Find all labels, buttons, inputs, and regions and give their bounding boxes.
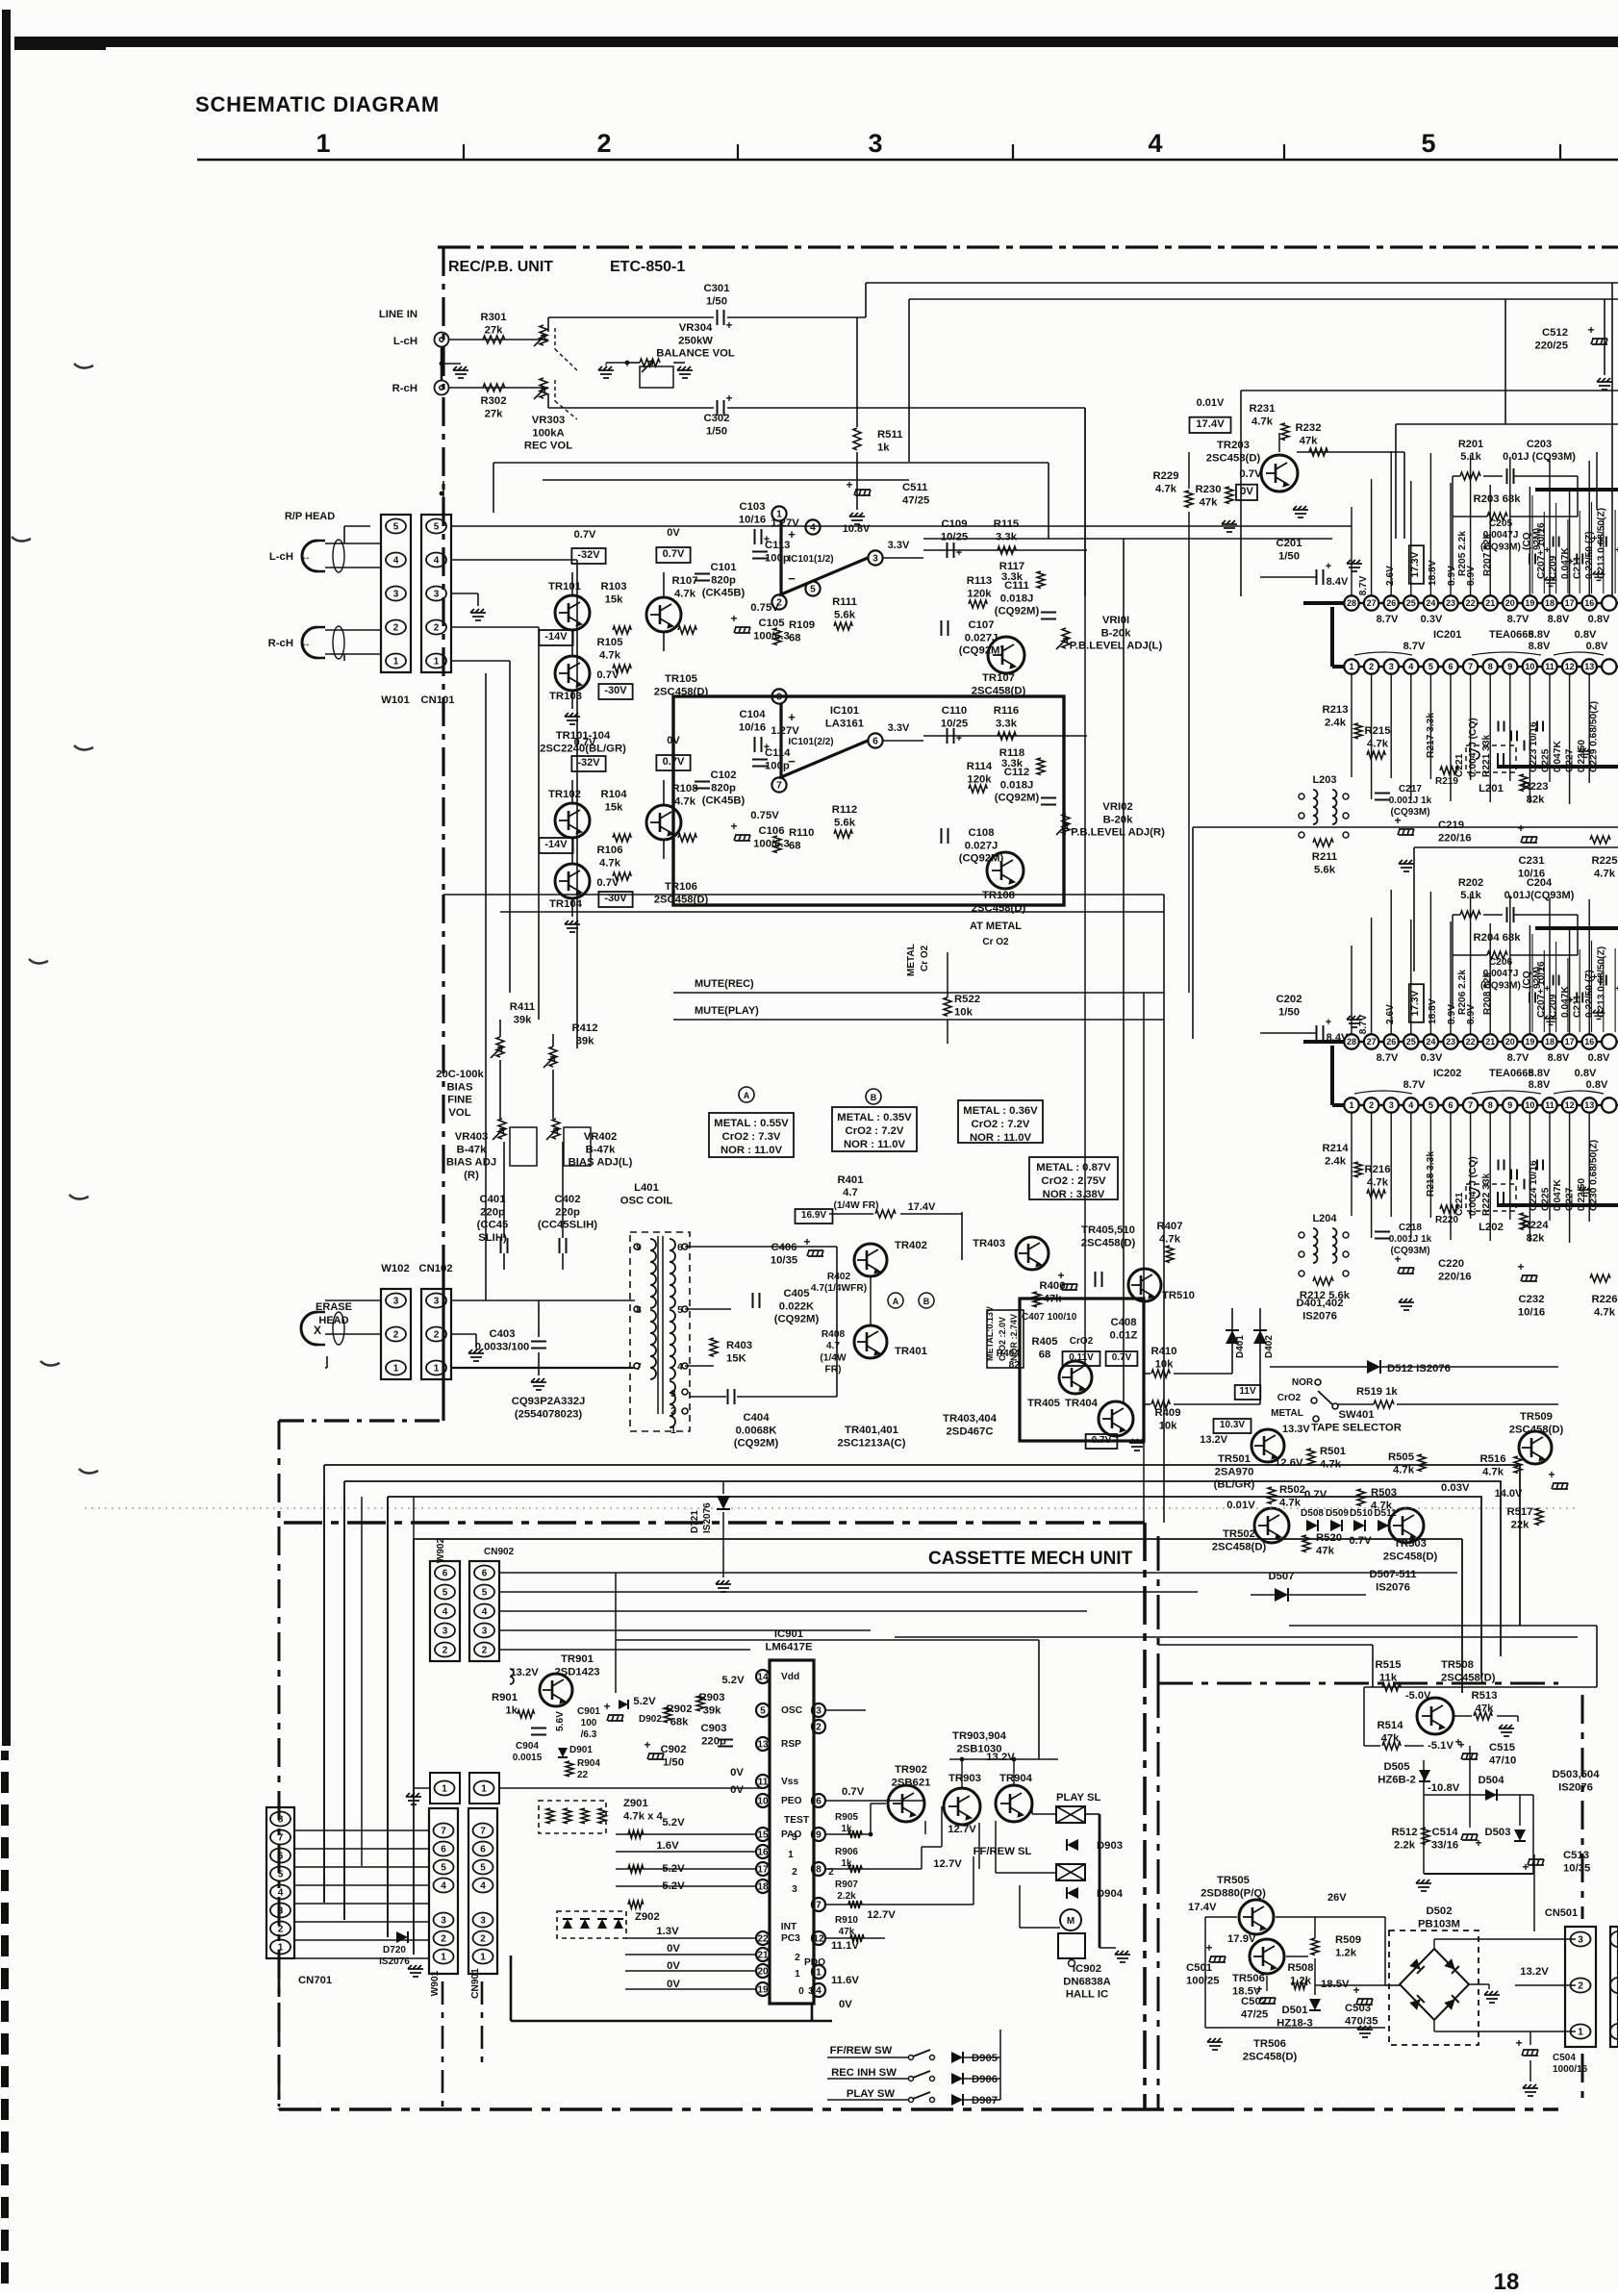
svg-text:0.22/50 (Z): 0.22/50 (Z) <box>1584 531 1595 579</box>
svg-text:1: 1 <box>434 657 440 668</box>
svg-text:R114: R114 <box>967 761 993 772</box>
svg-text:2SD880(P/Q): 2SD880(P/Q) <box>1201 1887 1266 1899</box>
svg-text:C209: C209 <box>1549 555 1559 579</box>
svg-text:0.8V: 0.8V <box>1586 1079 1608 1091</box>
svg-text:TR903,904: TR903,904 <box>952 1730 1007 1742</box>
svg-text:-32V: -32V <box>577 549 600 561</box>
svg-text:8.7V: 8.7V <box>1403 1079 1426 1091</box>
svg-text:4.7k x 4: 4.7k x 4 <box>623 1810 664 1822</box>
svg-text:METAL : 0.55V: METAL : 0.55V <box>714 1118 789 1129</box>
svg-text:10.8V: 10.8V <box>843 523 871 535</box>
svg-text:1/50: 1/50 <box>663 1756 684 1768</box>
svg-text:PB103M: PB103M <box>1418 1918 1460 1930</box>
svg-text:R116: R116 <box>994 705 1019 717</box>
svg-text:8.4V: 8.4V <box>1327 576 1349 588</box>
svg-text:8.7V: 8.7V <box>1358 1014 1369 1034</box>
svg-text:HALL IC: HALL IC <box>1066 1989 1108 2001</box>
svg-text:17.3V: 17.3V <box>1410 551 1421 577</box>
svg-text:0.001J 1k: 0.001J 1k <box>1389 795 1432 806</box>
svg-text:C217: C217 <box>1399 784 1422 795</box>
svg-text:0.7V: 0.7V <box>1349 1535 1372 1547</box>
svg-text:0.7V: 0.7V <box>1304 1489 1327 1501</box>
svg-text:3: 3 <box>482 1627 488 1637</box>
svg-text:1k: 1k <box>505 1704 518 1716</box>
svg-text:Z901: Z901 <box>623 1798 648 1809</box>
svg-text:23: 23 <box>1446 1037 1455 1047</box>
svg-text:10/35: 10/35 <box>771 1254 797 1266</box>
svg-text:2: 2 <box>480 1934 486 1945</box>
svg-text:0.0047J: 0.0047J <box>1483 969 1519 979</box>
svg-text:4.7k: 4.7k <box>1251 416 1274 427</box>
svg-text:13.3V: 13.3V <box>1282 1424 1310 1435</box>
svg-text:21: 21 <box>1485 1037 1495 1047</box>
svg-text:OSC COIL: OSC COIL <box>620 1195 673 1206</box>
svg-text:+: + <box>1515 2036 1522 2050</box>
svg-text:8.8V: 8.8V <box>1529 1079 1551 1091</box>
svg-text:+: + <box>725 391 732 405</box>
svg-text:5.6k: 5.6k <box>834 609 856 620</box>
svg-text:8.7V: 8.7V <box>1507 614 1530 625</box>
svg-text:R212 5.6k: R212 5.6k <box>1300 1290 1351 1301</box>
svg-text:4.7k: 4.7k <box>599 857 621 869</box>
svg-text:D907: D907 <box>972 2095 998 2107</box>
svg-text:10.3V: 10.3V <box>1220 1420 1245 1430</box>
svg-text:3: 3 <box>434 590 440 600</box>
svg-text:0.0068K: 0.0068K <box>736 1425 778 1436</box>
svg-text:47/25: 47/25 <box>902 494 929 506</box>
svg-text:PLAY SL: PLAY SL <box>1056 1792 1101 1804</box>
svg-text:4.7k: 4.7k <box>1159 1233 1181 1245</box>
svg-text:17.4V: 17.4V <box>1188 1902 1217 1913</box>
svg-text:IC201: IC201 <box>1433 629 1461 641</box>
svg-text:L204: L204 <box>1312 1213 1337 1224</box>
svg-text:C901: C901 <box>577 1706 600 1717</box>
svg-text:7: 7 <box>1468 662 1473 671</box>
svg-text:4: 4 <box>1408 1100 1413 1110</box>
svg-text:19: 19 <box>757 1984 769 1995</box>
svg-text:3: 3 <box>670 1389 676 1400</box>
svg-text:27: 27 <box>1367 598 1377 608</box>
svg-text:R204 68k: R204 68k <box>1474 932 1522 944</box>
svg-text:25: 25 <box>1406 598 1416 608</box>
svg-text:TR203: TR203 <box>1217 440 1250 451</box>
svg-text:C113: C113 <box>765 540 790 551</box>
svg-text:TEST: TEST <box>784 1815 810 1826</box>
svg-text:18: 18 <box>757 1881 769 1892</box>
svg-text:C405: C405 <box>783 1288 809 1299</box>
svg-text:5.1k: 5.1k <box>1460 451 1481 463</box>
svg-text:+: + <box>730 820 737 833</box>
svg-text:R222 33k: R222 33k <box>1481 1173 1492 1216</box>
svg-text:82k: 82k <box>1527 1232 1546 1244</box>
svg-text:4.7k: 4.7k <box>674 795 696 807</box>
svg-text:C515: C515 <box>1489 1742 1515 1754</box>
svg-text:15K: 15K <box>726 1352 747 1364</box>
svg-text:12: 12 <box>1565 662 1575 671</box>
svg-text:1: 1 <box>670 1426 676 1436</box>
svg-text:10/16: 10/16 <box>739 721 766 733</box>
svg-text:1: 1 <box>1349 662 1353 671</box>
svg-text:3.3k: 3.3k <box>996 531 1018 542</box>
svg-text:METAL : 0.36V: METAL : 0.36V <box>963 1105 1038 1117</box>
svg-text:Cr O2: Cr O2 <box>920 945 930 971</box>
svg-text:R502: R502 <box>1279 1484 1305 1496</box>
svg-text:R902: R902 <box>666 1703 692 1715</box>
svg-text:C221: C221 <box>1454 753 1465 777</box>
svg-text:3.3k: 3.3k <box>996 718 1018 729</box>
svg-text:11.1V: 11.1V <box>831 1940 859 1952</box>
svg-text:C406: C406 <box>771 1242 796 1253</box>
svg-text:13.2V: 13.2V <box>1200 1434 1227 1446</box>
svg-text:22: 22 <box>577 1770 589 1780</box>
svg-text:C401: C401 <box>479 1194 505 1205</box>
svg-text:R520: R520 <box>1316 1532 1342 1544</box>
svg-text:R203 68k: R203 68k <box>1474 493 1522 505</box>
svg-text:3: 3 <box>816 1705 822 1716</box>
svg-text:+: + <box>1548 1468 1555 1481</box>
svg-text:22: 22 <box>1466 598 1476 608</box>
svg-text:+: + <box>1475 1836 1481 1850</box>
svg-text:14: 14 <box>757 1672 769 1682</box>
svg-text:33/16: 33/16 <box>1431 1839 1458 1851</box>
svg-text:6: 6 <box>442 1569 448 1579</box>
svg-text:8.7V: 8.7V <box>1377 1052 1399 1064</box>
svg-text:+: + <box>846 478 852 492</box>
svg-text:4: 4 <box>810 522 816 533</box>
svg-text:R512: R512 <box>1391 1827 1417 1838</box>
svg-text:CN501: CN501 <box>1545 1907 1578 1919</box>
svg-text:18.8V: 18.8V <box>1428 560 1438 586</box>
svg-text:39k: 39k <box>514 1014 533 1025</box>
svg-text:P.B.LEVEL ADJ(L): P.B.LEVEL ADJ(L) <box>1070 641 1163 652</box>
svg-text:C213 0.68/50(Z): C213 0.68/50(Z) <box>1597 946 1607 1018</box>
svg-text:D503,504: D503,504 <box>1553 1769 1601 1780</box>
svg-text:R412: R412 <box>571 1022 597 1034</box>
svg-text:8.9V: 8.9V <box>1447 1004 1457 1024</box>
svg-text:2: 2 <box>1369 1100 1374 1110</box>
svg-text:R109: R109 <box>789 619 815 631</box>
svg-text:8.8V: 8.8V <box>1529 1068 1551 1079</box>
svg-text:4: 4 <box>1408 662 1413 671</box>
svg-text:0.0015: 0.0015 <box>513 1753 543 1763</box>
svg-text:0.001J 1k: 0.001J 1k <box>1389 1234 1432 1245</box>
svg-text:(CQ93M): (CQ93M) <box>1480 980 1521 991</box>
svg-text:8.8V: 8.8V <box>1529 641 1551 652</box>
svg-text:2: 2 <box>393 1330 399 1341</box>
svg-text:R104: R104 <box>600 789 627 800</box>
svg-text:100p: 100p <box>765 760 790 771</box>
svg-text:5: 5 <box>480 1863 486 1874</box>
svg-text:B-20k: B-20k <box>1103 814 1133 825</box>
svg-text:47k: 47k <box>1200 496 1219 508</box>
svg-text:R103: R103 <box>600 581 626 593</box>
svg-text:R113: R113 <box>967 575 992 587</box>
svg-text:(CC45SLIH): (CC45SLIH) <box>538 1220 597 1231</box>
svg-text:7: 7 <box>441 1827 446 1837</box>
svg-text:R110: R110 <box>789 827 814 839</box>
svg-text:-30V: -30V <box>604 685 627 696</box>
svg-text:16: 16 <box>757 1847 769 1857</box>
svg-text:4.7k: 4.7k <box>1393 1464 1415 1476</box>
svg-text:120k: 120k <box>967 773 992 785</box>
svg-text:BIAS ADJ(L): BIAS ADJ(L) <box>569 1157 633 1169</box>
svg-text:CrO2: CrO2 <box>1070 1336 1094 1347</box>
svg-text:OSC: OSC <box>781 1705 803 1716</box>
svg-text:0.0033/100: 0.0033/100 <box>475 1341 530 1352</box>
svg-text:5.2V: 5.2V <box>721 1675 745 1686</box>
svg-text:REC INH SW: REC INH SW <box>831 2067 897 2079</box>
svg-text:47k: 47k <box>1316 1545 1335 1556</box>
svg-text:(CK45B): (CK45B) <box>702 795 746 807</box>
svg-text:C512: C512 <box>1542 327 1568 339</box>
svg-text:10/16: 10/16 <box>1518 1306 1545 1318</box>
svg-text:TR509: TR509 <box>1520 1411 1553 1423</box>
svg-text:C207+ 10/16: C207+ 10/16 <box>1536 961 1547 1018</box>
svg-text:5: 5 <box>442 1588 448 1599</box>
svg-text:2: 2 <box>816 1722 822 1732</box>
svg-text:TR401: TR401 <box>895 1346 927 1357</box>
svg-text:C103: C103 <box>739 501 765 513</box>
svg-text:1: 1 <box>278 1943 284 1954</box>
svg-text:+: + <box>1205 1941 1212 1955</box>
svg-text:2: 2 <box>442 1646 448 1656</box>
svg-text:8.8V: 8.8V <box>1548 1052 1570 1064</box>
svg-text:12.7V: 12.7V <box>933 1858 962 1870</box>
svg-text:SLIH): SLIH) <box>478 1232 507 1244</box>
svg-text:−: − <box>788 571 796 586</box>
svg-text:TEA0665: TEA0665 <box>1489 1068 1533 1079</box>
svg-text:1k: 1k <box>841 1858 852 1869</box>
svg-text:47k: 47k <box>839 1927 855 1937</box>
svg-text:8: 8 <box>1488 1100 1493 1110</box>
svg-text:D509: D509 <box>1326 1508 1349 1519</box>
svg-text:B: B <box>923 1297 930 1306</box>
svg-text:SW401: SW401 <box>1338 1409 1374 1421</box>
svg-text:0.8V: 0.8V <box>1575 1068 1597 1079</box>
svg-text:METAL: METAL <box>906 944 917 976</box>
svg-text:TR904: TR904 <box>999 1773 1033 1784</box>
svg-text:5: 5 <box>760 1705 766 1716</box>
svg-text:L401: L401 <box>634 1182 659 1194</box>
svg-text:CN101: CN101 <box>420 694 454 706</box>
svg-text:0.8V: 0.8V <box>1588 1052 1610 1064</box>
svg-text:20: 20 <box>1505 1037 1515 1047</box>
svg-text:C207+ 10/16: C207+ 10/16 <box>1536 522 1547 579</box>
svg-text:3: 3 <box>792 1884 797 1895</box>
svg-text:5.2V: 5.2V <box>662 1817 685 1829</box>
svg-text:0.75V: 0.75V <box>750 810 779 821</box>
svg-text:0V: 0V <box>839 1999 852 2010</box>
svg-text:7: 7 <box>816 1900 822 1910</box>
svg-text:↔: ↔ <box>301 552 311 563</box>
svg-text:11: 11 <box>758 1777 769 1787</box>
svg-text:R901: R901 <box>492 1692 518 1703</box>
svg-text:7: 7 <box>480 1827 486 1837</box>
svg-text:13: 13 <box>757 1739 769 1750</box>
svg-text:TR902: TR902 <box>895 1764 927 1776</box>
svg-text:C211: C211 <box>1573 556 1583 579</box>
svg-text:1/50: 1/50 <box>1278 1006 1300 1018</box>
svg-text:+: + <box>1255 1982 1262 1996</box>
svg-text:+: + <box>788 527 796 542</box>
svg-text:68: 68 <box>789 840 801 851</box>
svg-text:C514: C514 <box>1431 1827 1458 1838</box>
svg-text:NOR : 11.0V: NOR : 11.0V <box>970 1132 1032 1144</box>
svg-text:5: 5 <box>810 584 816 594</box>
svg-text:+: + <box>1394 814 1401 827</box>
svg-text:R112: R112 <box>832 804 857 816</box>
svg-text:C225: C225 <box>1541 748 1552 772</box>
svg-text:1: 1 <box>776 509 782 519</box>
svg-text:AT METAL: AT METAL <box>970 921 1022 932</box>
svg-text:VRI0I: VRI0I <box>1102 615 1129 626</box>
svg-text:220/25: 220/25 <box>1534 340 1568 351</box>
svg-text:PLAY SW: PLAY SW <box>847 2088 896 2100</box>
svg-text:3: 3 <box>393 590 399 600</box>
svg-text:0.7V: 0.7V <box>1239 468 1262 480</box>
svg-text:68: 68 <box>1039 1349 1051 1360</box>
svg-text:47k: 47k <box>1044 1293 1063 1304</box>
svg-text:R407: R407 <box>1156 1221 1182 1232</box>
svg-text:TR405: TR405 <box>1027 1398 1060 1409</box>
svg-text:9: 9 <box>1507 662 1512 671</box>
svg-text:NOR : 11.0V: NOR : 11.0V <box>721 1145 783 1156</box>
svg-text:C203: C203 <box>1527 439 1552 450</box>
svg-text:C110: C110 <box>942 705 967 717</box>
svg-text:R513: R513 <box>1471 1690 1497 1702</box>
svg-text:10/25: 10/25 <box>941 531 968 542</box>
svg-text:8: 8 <box>278 1815 284 1826</box>
svg-text:C102: C102 <box>710 770 736 781</box>
svg-text:C403: C403 <box>489 1328 515 1340</box>
svg-text:IC901: IC901 <box>774 1628 803 1640</box>
svg-text:R211: R211 <box>1312 851 1337 863</box>
svg-text:0.7V: 0.7V <box>663 548 685 560</box>
svg-text:17.4V: 17.4V <box>1196 418 1225 430</box>
svg-text:18: 18 <box>1494 2269 1520 2291</box>
svg-text:−: − <box>788 754 796 769</box>
svg-text:IC101(1/2): IC101(1/2) <box>788 554 833 565</box>
svg-text:0.3V: 0.3V <box>1421 614 1443 625</box>
svg-text:R201: R201 <box>1458 439 1483 450</box>
svg-text:PEO: PEO <box>781 1796 802 1806</box>
svg-text:2SD467C: 2SD467C <box>947 1426 994 1437</box>
svg-text:0.022K: 0.022K <box>779 1300 815 1312</box>
svg-text:0.01J (CQ93M): 0.01J (CQ93M) <box>1503 451 1576 463</box>
svg-text:2: 2 <box>596 129 611 158</box>
svg-text:1: 1 <box>442 1784 447 1795</box>
svg-text:(CK45B): (CK45B) <box>702 588 746 599</box>
svg-text:R105: R105 <box>596 637 622 648</box>
svg-text:8.7V: 8.7V <box>1358 575 1369 595</box>
svg-text:1: 1 <box>393 657 399 668</box>
svg-text:8.8V: 8.8V <box>1548 614 1570 625</box>
svg-text:INT: INT <box>781 1922 797 1932</box>
svg-text:4: 4 <box>482 1607 488 1618</box>
svg-text:R231: R231 <box>1249 403 1275 415</box>
svg-text:Z902: Z902 <box>635 1911 660 1923</box>
svg-text:+: + <box>1587 323 1594 337</box>
svg-text:8.4V: 8.4V <box>1327 1032 1349 1044</box>
svg-text:9: 9 <box>816 1829 822 1840</box>
svg-text:+: + <box>730 612 737 625</box>
svg-text:11k: 11k <box>1379 1672 1398 1683</box>
svg-text:1000/16: 1000/16 <box>1553 2064 1588 2075</box>
svg-text:3: 3 <box>868 129 882 158</box>
svg-text:820p: 820p <box>711 574 736 586</box>
svg-text:R402: R402 <box>827 1272 851 1282</box>
svg-text:10: 10 <box>757 1796 769 1806</box>
svg-text:+: + <box>1394 1252 1401 1266</box>
svg-text:A: A <box>744 1091 750 1100</box>
svg-text:0.01V: 0.01V <box>1226 1500 1255 1511</box>
svg-text:27k: 27k <box>485 324 504 336</box>
svg-text:C220: C220 <box>1438 1258 1464 1270</box>
svg-text:6: 6 <box>872 736 878 746</box>
svg-text:R202: R202 <box>1458 877 1483 889</box>
svg-text:C229 0.68/50(Z): C229 0.68/50(Z) <box>1589 701 1600 772</box>
svg-text:TR401,401: TR401,401 <box>845 1425 898 1436</box>
svg-text:4.7k: 4.7k <box>1155 483 1177 494</box>
svg-text:6: 6 <box>816 1796 822 1806</box>
svg-text:R111: R111 <box>832 596 857 608</box>
svg-text:82: 82 <box>1009 1360 1021 1371</box>
svg-text:2SC458(D): 2SC458(D) <box>1081 1237 1136 1249</box>
svg-text:1/50: 1/50 <box>706 425 727 437</box>
svg-text:↔: ↔ <box>301 639 311 649</box>
svg-text:1: 1 <box>481 1784 487 1795</box>
svg-text:16.9V: 16.9V <box>801 1210 826 1221</box>
svg-text:1: 1 <box>788 1850 794 1860</box>
svg-text:C225: C225 <box>1541 1187 1552 1211</box>
svg-text:R910: R910 <box>835 1915 858 1926</box>
svg-text:Cr O2: Cr O2 <box>982 937 1009 947</box>
svg-text:13.2V: 13.2V <box>986 1752 1015 1763</box>
svg-text:R230: R230 <box>1195 484 1221 495</box>
svg-text:4: 4 <box>480 1881 486 1892</box>
svg-text:47/10: 47/10 <box>1489 1754 1516 1766</box>
svg-text:R215: R215 <box>1364 725 1390 737</box>
svg-text:4: 4 <box>393 556 399 567</box>
svg-text:D504: D504 <box>1478 1775 1504 1786</box>
svg-text:9: 9 <box>1507 1100 1512 1110</box>
svg-text:3.3V: 3.3V <box>888 540 910 551</box>
svg-text:+: + <box>1522 1860 1529 1874</box>
svg-text:VR402: VR402 <box>584 1131 618 1143</box>
svg-text:15k: 15k <box>605 593 624 605</box>
svg-text:R411: R411 <box>510 1001 535 1013</box>
svg-text:6: 6 <box>441 1845 446 1855</box>
svg-text:220/16: 220/16 <box>1438 832 1472 844</box>
svg-text:22: 22 <box>1466 1037 1476 1047</box>
svg-text:10: 10 <box>1525 1100 1534 1110</box>
svg-text:R511: R511 <box>877 429 902 441</box>
svg-text:TR403: TR403 <box>973 1238 1005 1249</box>
svg-text:R-cH: R-cH <box>268 638 293 649</box>
svg-text:C513: C513 <box>1563 1850 1589 1861</box>
svg-text:C404: C404 <box>743 1412 770 1424</box>
svg-text:17: 17 <box>1565 1037 1575 1047</box>
svg-text:C504: C504 <box>1553 2053 1576 2063</box>
svg-text:4.7(1/4WFR): 4.7(1/4WFR) <box>811 1283 867 1294</box>
svg-text:+: + <box>1326 1017 1331 1028</box>
svg-text:3: 3 <box>442 1627 448 1637</box>
svg-text:4.7: 4.7 <box>826 1341 840 1351</box>
svg-text:1k: 1k <box>841 1824 852 1834</box>
svg-text:C107: C107 <box>968 619 994 631</box>
svg-text:TR506: TR506 <box>1253 2038 1286 2050</box>
svg-text:L-cH: L-cH <box>393 336 417 347</box>
